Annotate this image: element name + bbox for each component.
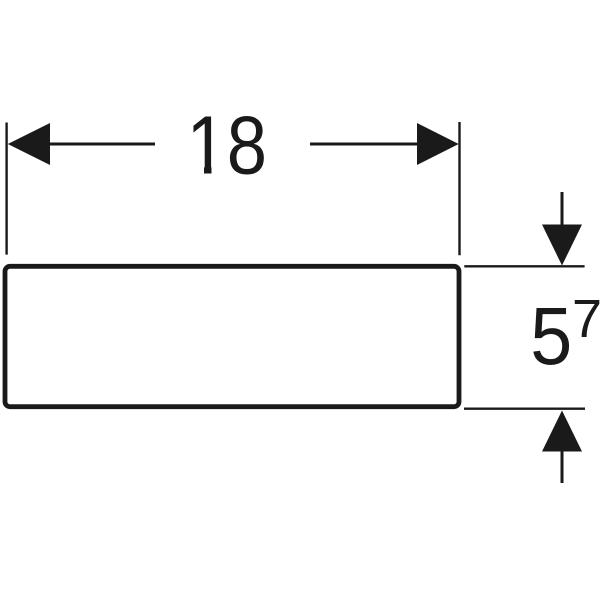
wire: top dimension line left segment (46, 143, 155, 146)
wire: top horizontal extension line (right) (464, 265, 584, 267)
wire: left vertical extension line (5, 123, 7, 255)
svg-text:18: 18 (187, 99, 268, 192)
node: up arrowhead of height dimension (542, 411, 582, 452)
mask: hide Liberation "1" foot serif (left) (189, 166, 204, 177)
wire: bottom horizontal extension line (right) (464, 408, 585, 410)
wire: upper vertical dimension line (561, 192, 564, 226)
mask: hide Liberation "1" foot serif (right) (212, 166, 226, 177)
node: left arrowhead of width dimension (8, 123, 50, 165)
svg-text:5: 5 (530, 291, 572, 382)
rectangle: product profile outline (5, 266, 459, 406)
svg-text:7: 7 (572, 289, 600, 349)
wire: right vertical extension line (458, 122, 460, 255)
wire: lower vertical dimension line (561, 451, 564, 484)
node: down arrowhead of height dimension (542, 225, 582, 266)
node: right arrowhead of width dimension (417, 123, 459, 165)
wire: top dimension line right segment (310, 143, 420, 146)
